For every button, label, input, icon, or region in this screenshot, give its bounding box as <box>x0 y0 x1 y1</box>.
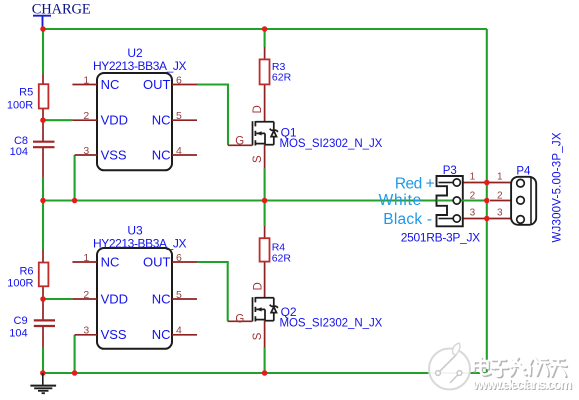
resistor R3 <box>260 47 270 122</box>
U3 pin 4 NC <box>152 325 197 343</box>
junction dot R6-C9-VDD node <box>40 296 46 302</box>
svg-text:HY2213-BB3A_JX: HY2213-BB3A_JX <box>93 59 187 73</box>
junction dot P3 row2 <box>484 198 490 204</box>
wire: R3 top stub <box>264 29 266 47</box>
U3 pin 1 NC <box>72 252 119 269</box>
svg-text:R5: R5 <box>19 87 33 99</box>
svg-text:U3: U3 <box>127 223 143 237</box>
junction dot U3 VSS on bottom rail <box>72 370 78 376</box>
IC U2 <box>97 73 172 170</box>
svg-text:5: 5 <box>176 110 182 122</box>
svg-text:2: 2 <box>83 110 89 122</box>
svg-text:WJ300V-5.00-3P_JX: WJ300V-5.00-3P_JX <box>552 132 564 242</box>
svg-text:2: 2 <box>83 289 89 301</box>
Q2 gate pin <box>228 320 253 322</box>
svg-text:White: White <box>379 192 422 209</box>
transistor Q1 MOSFET <box>253 121 278 146</box>
Q1 gate pin <box>228 144 253 146</box>
power port CHARGE symbol <box>33 16 51 29</box>
wire: U3 OUT to Q2 gate <box>197 262 228 321</box>
svg-text:MOS_SI2302_N_JX: MOS_SI2302_N_JX <box>280 138 383 150</box>
resistor R6 <box>39 249 49 299</box>
junction dot R3 top <box>262 26 268 32</box>
svg-text:62R: 62R <box>272 252 292 264</box>
svg-text:CHARGE: CHARGE <box>32 2 91 18</box>
watermark logo <box>429 343 470 390</box>
svg-text:www.elecfans.com: www.elecfans.com <box>472 377 572 392</box>
svg-text:R6: R6 <box>19 266 33 278</box>
junction dot U2 VSS on middle rail <box>72 198 78 204</box>
U2 pin 1 NC <box>72 74 119 91</box>
wire: U2 OUT to Q1 gate <box>197 85 228 146</box>
U3 pin 6 OUT <box>143 252 197 269</box>
transistor Q2 MOSFET <box>253 297 278 322</box>
svg-text:S: S <box>252 155 264 163</box>
svg-text:3: 3 <box>83 325 89 337</box>
U2 pin 4 NC <box>152 145 197 163</box>
svg-text:NC: NC <box>152 113 171 128</box>
svg-text:2: 2 <box>470 190 476 201</box>
svg-text:S: S <box>252 332 264 340</box>
svg-text:3: 3 <box>83 145 89 157</box>
P4 pin circles <box>517 179 525 223</box>
P3 pin circles <box>453 179 460 222</box>
wire: right vertical net <box>486 29 488 373</box>
svg-text:6: 6 <box>176 74 182 86</box>
junction dot ground node <box>40 370 46 376</box>
U2 pin 2 VDD <box>72 110 128 128</box>
svg-text:P4: P4 <box>516 166 531 178</box>
wire: Q1 source to middle rail <box>264 168 266 200</box>
svg-text:1: 1 <box>83 252 89 264</box>
svg-text:NC: NC <box>152 291 171 306</box>
wire: middle rail to R4 <box>264 201 266 227</box>
Q1 source pin <box>264 145 266 169</box>
junction dot R5-C8-VDD node <box>40 117 46 123</box>
wire: left column upper segment <box>42 29 44 74</box>
svg-text:4: 4 <box>176 325 182 337</box>
svg-text:MOS_SI2302_N_JX: MOS_SI2302_N_JX <box>280 317 383 329</box>
wire: R6-C9 node to U3 VDD <box>43 298 72 300</box>
svg-text:NC: NC <box>101 77 120 92</box>
svg-text:3: 3 <box>497 207 503 218</box>
svg-text:G: G <box>235 314 244 326</box>
resistor R4 <box>260 226 270 298</box>
svg-text:VSS: VSS <box>101 147 127 162</box>
svg-text:VDD: VDD <box>101 113 128 128</box>
svg-text:1: 1 <box>470 172 476 183</box>
svg-text:1: 1 <box>497 172 503 183</box>
svg-text:6: 6 <box>176 252 182 264</box>
watermark chinese text <box>474 358 567 378</box>
IC U3 <box>97 248 172 349</box>
svg-text:D: D <box>252 282 264 290</box>
U3 pin 5 NC <box>152 289 197 307</box>
junction dot Q2 source on bottom rail <box>262 370 268 376</box>
wire: Q2 source to bottom rail <box>264 348 266 374</box>
svg-text:NC: NC <box>101 254 120 269</box>
Q2 arrow (bulk) <box>256 307 261 311</box>
svg-text:P3: P3 <box>443 165 457 177</box>
U2 pin 3 VSS <box>75 145 127 163</box>
ground <box>30 373 56 393</box>
svg-text:4: 4 <box>176 145 182 157</box>
wire: top rail <box>43 28 487 30</box>
wire: left column middle rail to R6 <box>42 201 44 250</box>
svg-text:5: 5 <box>176 289 182 301</box>
wire: bottom rail (ground net) <box>43 372 487 374</box>
wire: U2 VSS drop <box>74 155 76 201</box>
svg-text:OUT: OUT <box>143 77 171 92</box>
svg-text:C9: C9 <box>14 315 28 327</box>
connector P3 <box>437 176 463 226</box>
svg-text:Red +: Red + <box>395 176 435 193</box>
svg-text:100R: 100R <box>7 277 33 289</box>
wire: middle rail (White net) <box>43 199 487 201</box>
U2 pin 6 OUT <box>143 74 197 91</box>
svg-text:2501RB-3P_JX: 2501RB-3P_JX <box>401 230 481 244</box>
junction dot P3 row1 <box>484 180 490 186</box>
svg-text:VSS: VSS <box>101 327 127 342</box>
wire: left column C9 to bottom rail <box>42 348 44 374</box>
Q1 arrow (bulk) <box>256 131 261 135</box>
connector P4 <box>511 177 536 225</box>
svg-text:HY2213-BB3A_JX: HY2213-BB3A_JX <box>93 236 187 250</box>
svg-text:VDD: VDD <box>101 291 128 306</box>
junction dot CHARGE <box>40 26 46 32</box>
Q2 source pin <box>264 321 266 348</box>
U3 pin 3 VSS <box>75 325 127 343</box>
U3 pin 2 VDD <box>72 289 128 307</box>
connector P3 pin wires <box>457 183 511 219</box>
wire: U3 VSS drop <box>74 335 76 373</box>
capacitor C8 <box>33 120 55 177</box>
svg-text:U2: U2 <box>127 46 143 60</box>
junction dot P3 row3 <box>484 216 490 222</box>
svg-text:100R: 100R <box>7 99 33 111</box>
svg-text:NC: NC <box>152 147 171 162</box>
junction dot left column middle rail <box>40 198 46 204</box>
svg-text:2: 2 <box>497 190 503 201</box>
svg-text:G: G <box>235 136 244 148</box>
svg-text:62R: 62R <box>272 72 292 84</box>
resistor R5 <box>39 74 49 121</box>
svg-text:D: D <box>252 105 264 113</box>
wire: left column C8 to middle rail <box>42 177 44 201</box>
svg-text:3: 3 <box>470 207 476 218</box>
svg-text:NC: NC <box>152 327 171 342</box>
wire: R5-C8 node to U2 VDD <box>43 119 72 121</box>
svg-text:Black -: Black - <box>383 211 432 228</box>
svg-text:OUT: OUT <box>143 254 171 269</box>
svg-text:104: 104 <box>9 327 27 339</box>
U2 pin 5 NC <box>152 110 197 128</box>
junction dot Q1 source R4 node <box>262 198 268 204</box>
svg-text:1: 1 <box>83 74 89 86</box>
capacitor C9 <box>34 299 55 348</box>
P3 middle rail overlay <box>437 199 487 201</box>
svg-text:104: 104 <box>10 146 28 158</box>
